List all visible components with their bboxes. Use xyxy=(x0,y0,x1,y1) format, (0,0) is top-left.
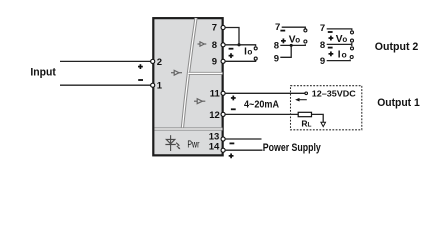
pin 11 terminal xyxy=(221,91,225,95)
Io minus sign xyxy=(229,48,234,50)
Vo upper socket xyxy=(351,31,354,34)
wire pin12 to load resistor xyxy=(226,113,299,115)
Vo upper socket xyxy=(304,29,307,32)
svg-text:12: 12 xyxy=(209,110,220,121)
input wire + (to pin 2) xyxy=(60,60,151,62)
junction 8-9 short xyxy=(290,44,293,47)
wire pin7 to pin8 node xyxy=(226,28,239,45)
Io lower socket xyxy=(350,56,353,59)
isolator module U1 body xyxy=(153,18,222,155)
pin 12 terminal xyxy=(221,112,225,116)
power LED D1 xyxy=(165,135,180,151)
wire 8 (Vo plus / Io minus) xyxy=(327,43,352,45)
pin 9 terminal xyxy=(221,59,225,63)
junction on pin8 wire xyxy=(237,43,240,46)
wire 8 (Vo plus) xyxy=(280,44,305,45)
wire 9 up to node 8 xyxy=(280,45,291,57)
svg-text:7: 7 xyxy=(275,22,280,33)
pin12 minus sign xyxy=(231,108,236,110)
amplifier symbol A1 (input side) xyxy=(171,70,182,75)
svg-text:Pwr: Pwr xyxy=(187,139,199,150)
input + sign xyxy=(138,64,143,69)
svg-text:4~20mA: 4~20mA xyxy=(244,99,280,110)
wire resistor to arrow xyxy=(312,114,324,122)
Io plus sign xyxy=(329,51,334,56)
wire pin13 (power minus) xyxy=(226,138,262,140)
svg-text:Output 1: Output 1 xyxy=(377,97,420,109)
load box (dashed) xyxy=(291,86,362,130)
svg-text:Io: Io xyxy=(338,49,348,60)
pin 1 terminal xyxy=(151,83,155,87)
wire pin14 (power plus) xyxy=(226,149,263,151)
Io upper socket xyxy=(254,47,257,50)
Vo lower socket xyxy=(351,39,354,42)
Vo minus sign xyxy=(328,31,333,33)
divider above power section (double line) xyxy=(155,127,223,130)
power minus sign xyxy=(230,143,235,145)
current direction arrow xyxy=(295,98,307,102)
wire 7 (Vo minus) xyxy=(282,27,306,28)
svg-text:8: 8 xyxy=(274,40,279,51)
power plus sign xyxy=(229,153,234,158)
Vo plus sign xyxy=(329,36,334,41)
svg-text:8: 8 xyxy=(320,40,325,51)
svg-text:Vo: Vo xyxy=(289,34,301,45)
Io lower socket xyxy=(254,57,257,60)
svg-text:8: 8 xyxy=(212,40,217,51)
wire pin11 to load box xyxy=(226,92,305,94)
svg-text:11: 11 xyxy=(210,89,221,100)
svg-text:9: 9 xyxy=(274,53,279,64)
pin 2 terminal xyxy=(151,59,155,63)
svg-text:7: 7 xyxy=(320,23,325,34)
isolation barrier diagonal (double line) xyxy=(182,18,196,128)
svg-text:12–35VDC: 12–35VDC xyxy=(312,89,356,99)
svg-text:1: 1 xyxy=(157,81,163,92)
svg-text:2: 2 xyxy=(157,57,162,68)
Io plus sign xyxy=(229,53,234,58)
pin 14 terminal xyxy=(221,148,225,152)
amplifier symbol A2 (output 2 cell) xyxy=(198,42,207,46)
supply terminal circle xyxy=(305,92,308,95)
svg-text:14: 14 xyxy=(209,141,220,152)
svg-text:9: 9 xyxy=(320,56,325,67)
resistor RL xyxy=(298,112,311,116)
pin 8 terminal xyxy=(221,43,225,47)
Io upper socket xyxy=(351,47,354,50)
hooks on wire 8 end xyxy=(351,43,353,46)
wire pin9 (Io plus) xyxy=(226,60,256,61)
wire 9 (Io plus) xyxy=(327,60,351,61)
svg-text:9: 9 xyxy=(212,57,217,68)
input wire - (to pin 1) xyxy=(60,84,151,86)
svg-text:Vo: Vo xyxy=(336,34,348,45)
pin 7 terminal xyxy=(221,25,225,29)
svg-text:Io: Io xyxy=(244,46,253,57)
svg-text:Output 2: Output 2 xyxy=(375,41,419,53)
down arrowhead (open) xyxy=(321,122,326,126)
svg-text:7: 7 xyxy=(212,23,217,34)
pin11 plus sign xyxy=(231,96,236,101)
Vo plus sign xyxy=(281,38,286,43)
Vo lower socket xyxy=(304,40,307,43)
Vo minus sign xyxy=(280,30,285,32)
divider between output2 and output1 cells (double line) xyxy=(189,72,223,75)
Io minus sign xyxy=(328,47,333,49)
svg-text:Power Supply: Power Supply xyxy=(263,142,321,154)
amplifier symbol A3 (output 1 cell) xyxy=(194,99,205,104)
wire pin8 (Io minus) xyxy=(226,45,256,47)
wire 7 (Vo minus) xyxy=(327,29,352,30)
pin 13 terminal xyxy=(221,137,225,141)
input - sign xyxy=(138,79,143,81)
svg-text:Input: Input xyxy=(30,66,56,78)
